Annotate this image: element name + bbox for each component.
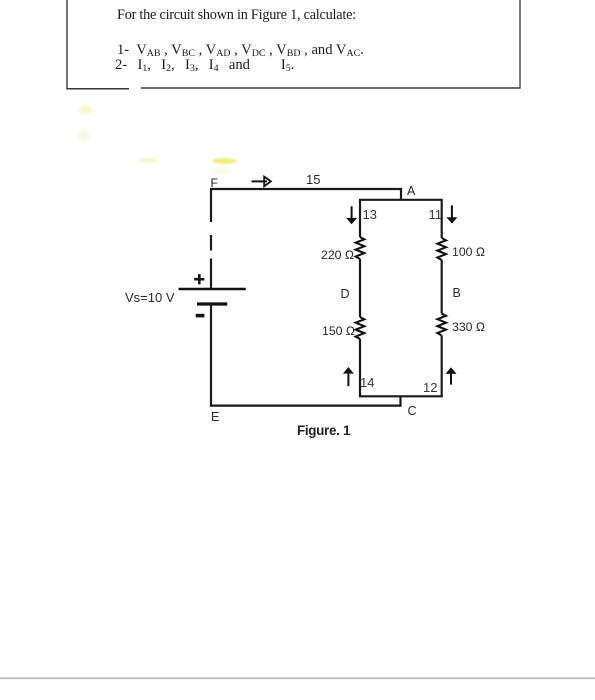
figure caption <box>297 423 350 438</box>
wire step at node C <box>399 396 401 405</box>
highlighter smudge above F <box>212 158 237 164</box>
resistor 330 ohm zigzag <box>437 314 446 336</box>
wire inner top rail <box>359 199 443 201</box>
current I1 arrow (down) <box>446 205 457 223</box>
problem statement item 2 <box>115 57 294 74</box>
wire left branch upper <box>359 200 361 237</box>
battery long plate (positive) <box>179 288 246 291</box>
wire left segment to battery plus <box>210 259 212 290</box>
statement box right border <box>519 0 521 88</box>
wire step at node A <box>400 188 402 200</box>
current label I2 <box>423 380 437 395</box>
wire right branch middle <box>441 260 443 314</box>
resistor label 220 ohm <box>321 248 354 262</box>
resistor label 330 ohm <box>452 320 485 334</box>
battery plus sign <box>194 274 204 284</box>
wire right branch upper <box>441 200 443 238</box>
wire left branch lower <box>359 339 361 396</box>
node E label <box>211 410 219 424</box>
resistor label 150 ohm <box>322 324 355 338</box>
wire left branch middle <box>359 259 361 317</box>
current I5 arrow open head <box>264 177 271 187</box>
node A label <box>407 184 415 198</box>
wire inner bottom rail <box>359 395 443 397</box>
current label I5 <box>306 172 320 187</box>
current label I1 <box>429 207 443 222</box>
node F label <box>211 176 218 190</box>
battery minus sign <box>196 314 205 318</box>
current label I3 <box>363 207 377 222</box>
wire left upper solid segment <box>210 188 212 222</box>
highlighter smudge faint below <box>212 166 232 175</box>
wire right branch lower <box>441 336 443 397</box>
current I3 arrow (down) <box>346 206 357 224</box>
wire top F to A <box>211 188 401 190</box>
statement box bottom border right segment <box>141 87 521 89</box>
current label I4 <box>360 375 374 390</box>
wire left lower from battery to E <box>210 304 212 407</box>
current I2 arrow (up) <box>446 367 457 384</box>
node B label <box>453 286 461 300</box>
highlighter smudge left 1 <box>78 105 93 114</box>
resistor 150 ohm zigzag <box>356 317 365 339</box>
resistor label 100 ohm <box>452 245 485 259</box>
current I4 arrow (up) <box>343 367 354 386</box>
problem statement item 1 <box>117 42 364 59</box>
node D label <box>341 287 350 301</box>
wire bottom E to C <box>211 404 402 406</box>
statement box bottom border left segment <box>66 88 129 90</box>
current I5 arrow shaft <box>252 180 268 182</box>
battery short plate (negative) <box>197 302 227 305</box>
resistor 220 ohm zigzag <box>356 237 365 259</box>
statement box left border <box>66 0 68 89</box>
source label Vs=10 V <box>125 290 175 305</box>
highlighter smudge left 2 <box>77 130 90 141</box>
problem statement text line 1 <box>117 7 356 24</box>
node C label <box>408 404 417 418</box>
wire left dash segment <box>210 235 212 251</box>
highlighter smudge mid <box>139 158 158 163</box>
bottom page rule line <box>0 677 595 679</box>
resistor 100 ohm zigzag <box>437 238 446 260</box>
